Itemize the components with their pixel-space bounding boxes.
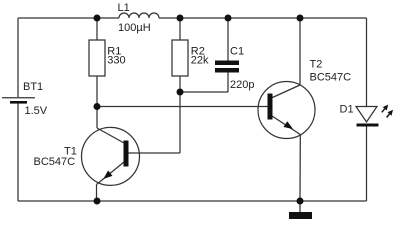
svg-text:BT1: BT1 — [23, 81, 43, 93]
svg-text:BC547C: BC547C — [34, 156, 76, 168]
svg-text:C1: C1 — [230, 46, 244, 58]
svg-text:22k: 22k — [191, 55, 209, 67]
svg-text:D1: D1 — [340, 103, 354, 115]
svg-text:100µH: 100µH — [118, 22, 151, 34]
svg-text:L1: L1 — [118, 2, 130, 14]
svg-text:BC547C: BC547C — [310, 71, 352, 83]
svg-text:T2: T2 — [310, 58, 323, 70]
svg-text:330: 330 — [107, 55, 125, 67]
svg-text:220p: 220p — [230, 79, 254, 91]
svg-text:1.5V: 1.5V — [25, 105, 48, 117]
